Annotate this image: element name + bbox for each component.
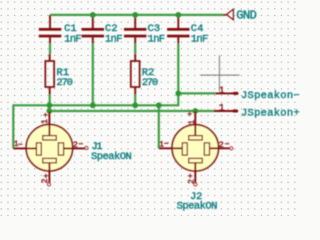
ground GND hierarchical label: [223, 8, 257, 22]
wire left drop to J1 pin 1: [12, 105, 14, 148]
wire R2 down to bus A: [134, 95, 136, 106]
J1 pin 2+ bottom: [41, 163, 51, 186]
svg-text:1: 1: [219, 103, 225, 114]
svg-text:JSpeakon−: JSpeakon−: [241, 90, 300, 102]
wire J1 junction down to bus B: [48, 105, 50, 111]
junction dot bus B J1 pin: [47, 108, 53, 114]
svg-text:1nF: 1nF: [191, 33, 208, 45]
svg-text:SpeakON: SpeakON: [91, 151, 132, 163]
J1 pin 1+ top: [41, 111, 50, 136]
svg-text:2: 2: [73, 140, 78, 150]
junction dot bus A R1: [47, 102, 53, 108]
cursor crosshair: [200, 55, 239, 91]
J1 value label SpeakON: [91, 151, 132, 163]
junction dot bus A R2: [132, 102, 138, 108]
wire JSpeakon- horizontal: [178, 92, 215, 94]
wire top bus: [50, 14, 224, 16]
resistor R1: [45, 54, 72, 95]
junction dot top C4: [175, 12, 181, 18]
wire C4 down to JSpeakon- node: [177, 44, 179, 94]
svg-text:1nF: 1nF: [105, 33, 122, 45]
wire R1 down to bus A: [49, 95, 51, 106]
J1 reference label: [91, 141, 102, 153]
capacitor C3: [124, 15, 165, 45]
junction dot bus A J2 drop: [156, 102, 162, 108]
wire C4 node down to bus A corner: [177, 93, 179, 106]
svg-text:2: 2: [219, 140, 224, 150]
pin 1 JSpeakon-: [215, 85, 300, 102]
wire bus B horizontal JSpeakon+: [49, 110, 213, 112]
svg-text:JSpeakon+: JSpeakon+: [241, 108, 300, 120]
junction dot bus A C2: [90, 102, 96, 108]
connector J1 SpeakON: [26, 125, 72, 171]
junction dot top C2: [90, 12, 96, 18]
resistor R2: [131, 54, 158, 95]
J2 value label SpeakON: [177, 200, 218, 212]
connector J2 SpeakON: [172, 125, 218, 171]
svg-text:1nF: 1nF: [64, 33, 81, 45]
svg-text:−: −: [164, 140, 169, 149]
J1 pin 2- right: [64, 140, 88, 150]
wire bus A horizontal: [12, 104, 178, 106]
svg-text:+: +: [187, 111, 192, 120]
svg-text:2: 2: [188, 179, 197, 184]
J2 reference label: [190, 191, 202, 203]
junction dot C4 JSpeakon- node: [175, 91, 181, 97]
J2 pin 2- right: [210, 140, 233, 150]
junction dot top C3: [132, 12, 138, 18]
svg-text:GND: GND: [236, 8, 256, 22]
J1 pin 1- left: [13, 140, 36, 150]
J2 pin 1+ top: [187, 111, 197, 136]
svg-text:2: 2: [41, 178, 50, 183]
pin 1 JSpeakon+: [214, 103, 300, 120]
J2 pin 1- left: [159, 140, 183, 149]
wire C2 down to bus: [92, 44, 94, 106]
svg-text:1: 1: [188, 120, 197, 125]
wire C1 to R1: [49, 44, 51, 55]
svg-text:−: −: [18, 141, 23, 150]
svg-text:1nF: 1nF: [148, 33, 165, 45]
wire drop to J2 pin 1: [158, 105, 160, 148]
capacitor C2: [82, 15, 123, 45]
capacitor C4: [167, 15, 208, 45]
svg-text:−: −: [78, 140, 83, 149]
svg-text:−: −: [225, 140, 230, 149]
svg-text:270: 270: [142, 77, 158, 89]
J2 pin 2+ bottom: [188, 163, 197, 186]
svg-text:270: 270: [56, 77, 72, 89]
svg-text:SpeakON: SpeakON: [177, 200, 218, 212]
junction dot bus B J2 pin: [192, 108, 198, 114]
svg-text:1: 1: [41, 119, 50, 124]
wire C3 to R2: [134, 44, 136, 55]
capacitor C1: [39, 15, 82, 45]
